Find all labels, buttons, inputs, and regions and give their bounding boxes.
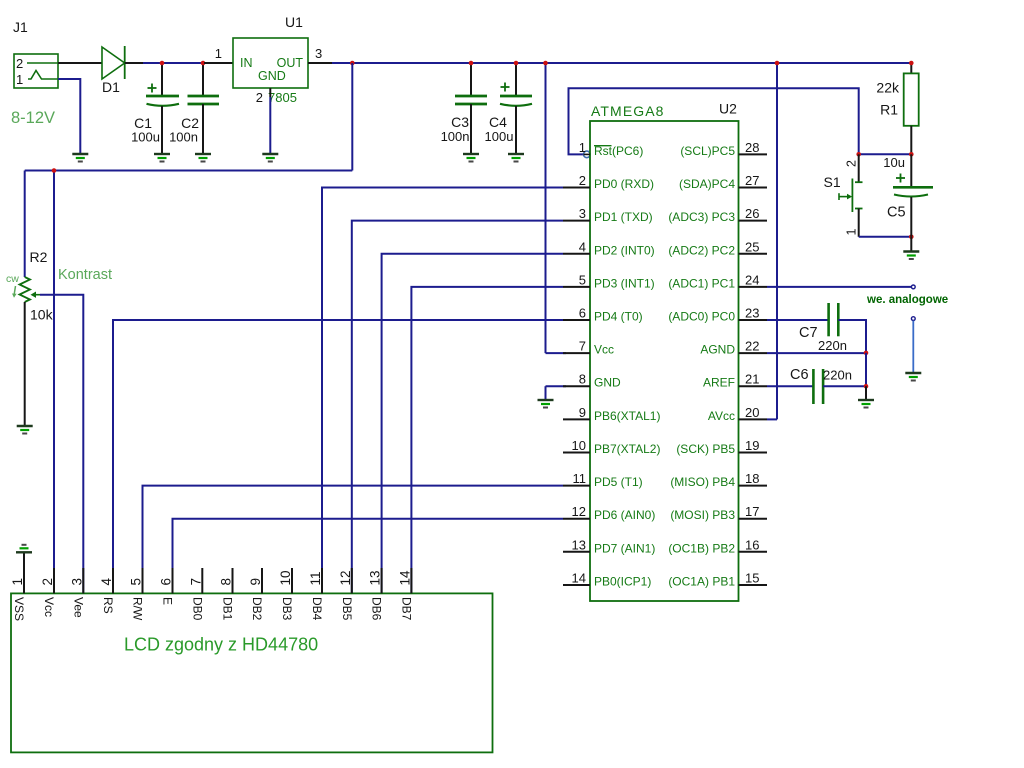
svg-text:(ADC3) PC3: (ADC3) PC3 xyxy=(668,210,735,224)
svg-text:2: 2 xyxy=(40,578,55,586)
LCD pin 5 stub xyxy=(142,568,144,593)
svg-text:IN: IN xyxy=(240,56,253,70)
svg-text:5: 5 xyxy=(129,578,144,586)
svg-text:12: 12 xyxy=(572,504,586,519)
wire PD3 to LCD DB7 xyxy=(411,287,563,594)
wire U2 pin22 AGND xyxy=(767,352,866,354)
capacitor C4 xyxy=(500,63,532,154)
svg-text:7: 7 xyxy=(188,578,203,586)
wire U1 OUT to rail xyxy=(332,62,352,64)
svg-text:RS: RS xyxy=(101,597,115,614)
svg-text:DB0: DB0 xyxy=(190,597,204,621)
svg-text:11: 11 xyxy=(308,571,323,585)
svg-text:GND: GND xyxy=(258,69,286,83)
LCD pin 2 stub xyxy=(53,568,55,593)
svg-text:cw: cw xyxy=(6,273,19,285)
svg-text:18: 18 xyxy=(745,471,759,486)
LCD pin 11 stub xyxy=(321,568,323,593)
wire AGND node down xyxy=(865,353,867,386)
junction S1 pin2 xyxy=(856,152,861,157)
svg-text:PB0(ICP1): PB0(ICP1) xyxy=(594,575,651,589)
svg-text:3: 3 xyxy=(579,206,586,221)
ground analog xyxy=(905,373,921,381)
ground C5 xyxy=(903,252,919,260)
U2 pin 1 stub xyxy=(583,153,590,155)
wire U2 pin21 to C6 xyxy=(767,385,813,387)
svg-text:DB5: DB5 xyxy=(340,597,354,621)
svg-text:100u: 100u xyxy=(485,129,514,144)
svg-text:7805: 7805 xyxy=(268,90,297,105)
junction C5 bottom xyxy=(909,235,914,240)
capacitor C7 xyxy=(829,303,839,336)
svg-text:J1: J1 xyxy=(13,19,28,35)
svg-text:220n: 220n xyxy=(818,338,847,353)
svg-text:23: 23 xyxy=(745,306,759,321)
svg-text:(ADC0) PC0: (ADC0) PC0 xyxy=(668,310,735,324)
svg-text:4: 4 xyxy=(579,239,586,254)
junction AREF gnd xyxy=(864,384,869,389)
LCD pin 4 stub xyxy=(112,568,114,593)
svg-text:2: 2 xyxy=(256,90,263,105)
ground LCD VSS (inverted) xyxy=(16,545,32,553)
capacitor C1 xyxy=(146,63,179,154)
wire R2 bottom to ground xyxy=(24,302,26,426)
svg-text:100u: 100u xyxy=(131,130,160,145)
wire S1 pin1 to C5 bottom xyxy=(859,236,912,238)
svg-text:AGND: AGND xyxy=(700,343,735,357)
svg-text:PD7 (AIN1): PD7 (AIN1) xyxy=(594,541,655,555)
ground C4 xyxy=(508,154,524,162)
svg-text:1: 1 xyxy=(16,72,23,87)
wire U1 GND pin to ground xyxy=(269,88,271,97)
svg-text:13: 13 xyxy=(368,570,383,585)
svg-text:AVcc: AVcc xyxy=(708,409,735,423)
svg-text:14: 14 xyxy=(397,570,412,586)
U2 pin 7 stub xyxy=(563,352,590,354)
svg-text:28: 28 xyxy=(745,140,759,155)
U2 pin 5 stub xyxy=(563,286,590,288)
svg-text:(SCK) PB5: (SCK) PB5 xyxy=(676,442,735,456)
U2 pin 6 stub xyxy=(563,319,590,321)
U1 pin3 stub xyxy=(308,62,332,64)
svg-text:DB7: DB7 xyxy=(399,597,413,621)
ground C3 xyxy=(463,154,479,162)
svg-text:(MOSI) PB3: (MOSI) PB3 xyxy=(670,508,735,522)
microcontroller U2 box xyxy=(590,121,739,601)
svg-text:10u: 10u xyxy=(883,155,905,170)
LCD pin 12 stub xyxy=(351,568,353,593)
svg-text:5: 5 xyxy=(579,272,586,287)
wire Vcc rail to U2 pin7 xyxy=(545,63,547,353)
wire J1 pin2 to D1 anode xyxy=(58,62,102,64)
svg-text:10k: 10k xyxy=(30,307,54,323)
ground C1 xyxy=(154,154,170,162)
wire R2 wiper to LCD Vee xyxy=(40,295,83,594)
U2 pin 17 stub xyxy=(739,518,768,520)
wire rail to R2 xyxy=(24,171,26,278)
svg-text:DB4: DB4 xyxy=(310,597,324,621)
svg-text:R/W: R/W xyxy=(131,597,145,621)
wire 5V rail top xyxy=(352,62,911,64)
LCD pin 7 stub xyxy=(201,568,203,593)
svg-text:R2: R2 xyxy=(30,249,48,265)
svg-text:10: 10 xyxy=(572,438,586,453)
junction R1 top xyxy=(909,61,914,66)
svg-text:Kontrast: Kontrast xyxy=(58,267,112,283)
U2 pin 2 stub xyxy=(563,187,590,189)
wire reset net xyxy=(569,88,912,154)
svg-text:PD6 (AIN0): PD6 (AIN0) xyxy=(594,508,655,522)
svg-text:22: 22 xyxy=(745,339,759,354)
svg-text:21: 21 xyxy=(745,372,759,387)
junction C4 top xyxy=(514,61,519,66)
svg-text:PD4 (T0): PD4 (T0) xyxy=(594,310,643,324)
svg-text:14: 14 xyxy=(572,571,586,586)
wire to analog ground xyxy=(865,386,867,400)
svg-text:PD2 (INT0): PD2 (INT0) xyxy=(594,243,655,257)
junction AGND xyxy=(864,351,869,356)
U2 pin1 inverting circle xyxy=(584,151,591,158)
svg-text:3: 3 xyxy=(69,578,84,586)
resistor R1 xyxy=(904,63,919,154)
svg-text:7: 7 xyxy=(579,339,586,354)
U2 pin 3 stub xyxy=(563,220,590,222)
wire PD6 to LCD E xyxy=(173,519,564,594)
U2 pin 26 stub xyxy=(739,220,768,222)
U2 pin 15 stub xyxy=(739,584,768,586)
U2 pin 8 stub xyxy=(563,385,590,387)
svg-text:C6: C6 xyxy=(790,367,809,383)
svg-text:DB1: DB1 xyxy=(221,597,235,621)
U2 pin 12 stub xyxy=(563,518,590,520)
svg-text:AREF: AREF xyxy=(703,376,735,390)
U2 pin 10 stub xyxy=(563,452,590,454)
wire PD2 to LCD DB6 xyxy=(382,254,563,594)
junction C1 top xyxy=(160,61,165,66)
svg-text:3: 3 xyxy=(315,46,322,61)
U2 pin 23 stub xyxy=(739,319,768,321)
svg-text:2: 2 xyxy=(16,56,23,71)
wire PD4 to LCD RS xyxy=(113,320,563,593)
LCD pin 9 stub xyxy=(261,568,263,593)
U2 pin 27 stub xyxy=(739,187,768,189)
wire U1 pin1 stub xyxy=(204,62,233,64)
junction C3 top xyxy=(469,61,474,66)
U2 pin 16 stub xyxy=(739,551,768,553)
svg-text:OUT: OUT xyxy=(277,56,304,70)
svg-text:R1: R1 xyxy=(880,102,898,118)
U2 pin 25 stub xyxy=(739,253,768,255)
svg-text:100n: 100n xyxy=(441,129,470,144)
wire PD1 to LCD DB5 xyxy=(352,221,563,594)
svg-text:PB6(XTAL1): PB6(XTAL1) xyxy=(594,409,660,423)
junction Vcc xyxy=(543,61,548,66)
capacitor C5 xyxy=(893,154,933,237)
svg-text:U2: U2 xyxy=(719,101,737,117)
svg-text:C5: C5 xyxy=(887,205,906,221)
capacitor C2 xyxy=(188,63,220,154)
svg-text:S1: S1 xyxy=(824,174,841,190)
LCD pin 10 stub xyxy=(291,568,293,593)
LCD pin 14 stub xyxy=(410,568,412,593)
svg-text:16: 16 xyxy=(745,537,759,552)
LCD pin 1 stub xyxy=(23,552,25,593)
connector J1 xyxy=(14,54,58,88)
svg-text:C4: C4 xyxy=(489,114,507,130)
U2 pin 11 stub xyxy=(563,485,590,487)
LCD pin 3 stub xyxy=(82,568,84,593)
U2 pin 18 stub xyxy=(739,485,768,487)
svg-text:24: 24 xyxy=(745,272,759,287)
U2 pin 13 stub xyxy=(563,551,590,553)
ground J1 xyxy=(72,154,88,162)
U2 pin 20 stub xyxy=(739,418,768,420)
svg-text:12: 12 xyxy=(338,570,353,585)
wire rail down from OUT xyxy=(351,63,353,171)
ground U2 GND xyxy=(538,400,554,408)
svg-text:1: 1 xyxy=(215,46,222,61)
wire PD5 to LCD R/W xyxy=(143,486,564,594)
svg-text:DB2: DB2 xyxy=(250,597,264,621)
svg-text:Vcc: Vcc xyxy=(42,597,56,617)
svg-text:9: 9 xyxy=(579,405,586,420)
U2 pin 24 stub xyxy=(739,286,768,288)
wire C7 to AGND node xyxy=(838,320,866,353)
svg-text:D1: D1 xyxy=(102,79,120,95)
U2 pin 21 stub xyxy=(739,385,768,387)
svg-text:15: 15 xyxy=(745,571,759,586)
svg-text:Vcc: Vcc xyxy=(594,343,614,357)
U2 pin 14 stub xyxy=(563,584,590,586)
svg-text:13: 13 xyxy=(572,537,586,552)
svg-text:22k: 22k xyxy=(876,80,900,96)
analog input pin circle xyxy=(911,285,915,289)
LCD pin 13 stub xyxy=(381,568,383,593)
svg-text:E: E xyxy=(161,597,175,605)
svg-text:PB7(XTAL2): PB7(XTAL2) xyxy=(594,442,660,456)
svg-text:27: 27 xyxy=(745,173,759,188)
wire analog gnd stub xyxy=(912,321,914,373)
svg-text:U1: U1 xyxy=(285,14,303,30)
svg-text:1: 1 xyxy=(10,578,25,586)
wire AVcc rail to U2 pin20 xyxy=(776,63,778,419)
svg-text:10: 10 xyxy=(278,570,293,585)
diode D1 xyxy=(102,46,125,79)
svg-text:20: 20 xyxy=(745,405,759,420)
ground R2 xyxy=(17,426,33,434)
svg-text:C3: C3 xyxy=(451,114,469,130)
wire D1 to C1/C2/U1 xyxy=(143,62,204,64)
svg-text:8: 8 xyxy=(219,578,234,586)
svg-text:8-12V: 8-12V xyxy=(11,109,55,127)
svg-text:DB6: DB6 xyxy=(370,597,384,621)
svg-text:6: 6 xyxy=(159,578,174,586)
junction LCD Vcc xyxy=(52,168,57,173)
wire J1 pin1 to ground xyxy=(58,79,80,154)
svg-text:PD1 (TXD): PD1 (TXD) xyxy=(594,210,653,224)
potentiometer R2 xyxy=(20,277,41,302)
svg-text:LCD zgodny z HD44780: LCD zgodny z HD44780 xyxy=(124,635,318,655)
svg-text:(ADC2) PC2: (ADC2) PC2 xyxy=(668,243,735,257)
svg-text:1: 1 xyxy=(579,140,586,155)
LCD pin 6 stub xyxy=(172,568,174,593)
svg-text:17: 17 xyxy=(745,504,759,519)
wire PD0 to LCD DB4 xyxy=(322,188,563,594)
svg-text:(MISO) PB4: (MISO) PB4 xyxy=(670,475,735,489)
svg-text:Vee: Vee xyxy=(71,597,85,618)
U2 pin 19 stub xyxy=(739,452,768,454)
svg-text:1: 1 xyxy=(845,229,859,236)
svg-text:PD3 (INT1): PD3 (INT1) xyxy=(594,276,655,290)
svg-text:we. analogowe: we. analogowe xyxy=(866,294,948,306)
wire U2 pin24 analog input xyxy=(767,286,911,288)
svg-text:(OC1B) PB2: (OC1B) PB2 xyxy=(668,541,735,555)
capacitor C3 xyxy=(455,63,487,154)
wire 5V rail to LCD/R2 xyxy=(25,170,353,172)
ground AREF xyxy=(858,400,874,408)
svg-text:(SCL)PC5: (SCL)PC5 xyxy=(680,144,735,158)
svg-text:VSS: VSS xyxy=(12,597,26,621)
svg-text:8: 8 xyxy=(579,372,586,387)
svg-text:2: 2 xyxy=(579,173,586,188)
wire U2 pin23 to C7 xyxy=(767,319,829,321)
U2 pin 28 stub xyxy=(739,153,768,155)
svg-text:DB3: DB3 xyxy=(280,597,294,621)
junction OUT xyxy=(350,61,355,66)
svg-text:100n: 100n xyxy=(169,130,198,145)
svg-text:2: 2 xyxy=(845,160,859,167)
analog gnd pin circle xyxy=(911,317,915,321)
wire U2 pin8 GND xyxy=(546,385,567,387)
regulator U1 box xyxy=(233,38,308,88)
wire C5 bottom to ground xyxy=(910,237,912,252)
U2 pin 9 stub xyxy=(563,418,590,420)
svg-text:PD5 (T1): PD5 (T1) xyxy=(594,475,643,489)
svg-text:4: 4 xyxy=(99,578,114,586)
wire D1 cathode stub xyxy=(125,62,143,64)
wire C6 to ground node xyxy=(823,385,866,387)
Rst overline xyxy=(594,145,612,147)
capacitor C6 xyxy=(813,369,823,404)
wire 5V to LCD Vcc pin2 xyxy=(53,171,55,594)
junction R1 bottom C5 xyxy=(909,152,914,157)
svg-text:C7: C7 xyxy=(799,325,818,341)
ground U1 xyxy=(262,154,278,162)
svg-text:PD0 (RXD): PD0 (RXD) xyxy=(594,177,654,191)
U2 pin 4 stub xyxy=(563,253,590,255)
svg-text:9: 9 xyxy=(248,578,263,586)
svg-text:19: 19 xyxy=(745,438,759,453)
U2 pin 22 stub xyxy=(739,352,768,354)
svg-text:6: 6 xyxy=(579,306,586,321)
junction AVcc xyxy=(775,61,780,66)
cw arrow xyxy=(14,286,16,296)
svg-text:(ADC1) PC1: (ADC1) PC1 xyxy=(668,276,735,290)
svg-text:25: 25 xyxy=(745,239,759,254)
svg-text:ATMEGA8: ATMEGA8 xyxy=(591,103,665,119)
LCD module box xyxy=(11,593,493,752)
svg-text:220n: 220n xyxy=(823,368,852,383)
svg-text:GND: GND xyxy=(594,376,621,390)
ground C2 xyxy=(195,154,211,162)
svg-text:(OC1A) PB1: (OC1A) PB1 xyxy=(668,575,735,589)
svg-text:11: 11 xyxy=(573,471,587,486)
svg-text:(SDA)PC4: (SDA)PC4 xyxy=(679,177,735,191)
svg-text:26: 26 xyxy=(745,206,759,221)
junction C2 top xyxy=(201,61,206,66)
switch S1 xyxy=(839,154,863,237)
LCD pin 8 stub xyxy=(232,568,234,593)
